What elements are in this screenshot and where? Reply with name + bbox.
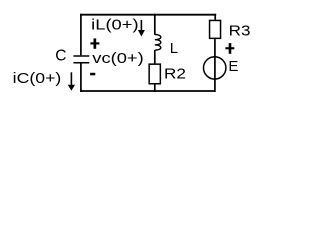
wire left branch lower [80, 64, 82, 93]
wire bottom [80, 90, 215, 92]
svg-text:vc(0+): vc(0+) [92, 50, 143, 67]
resistor R2 [149, 64, 160, 84]
plus sign vc polarity [90, 38, 99, 48]
inductor L coil [155, 35, 161, 51]
svg-text:R3: R3 [229, 23, 251, 40]
wire top [80, 14, 216, 16]
wire right branch through source [214, 39, 216, 92]
svg-text:iC(0+): iC(0+) [13, 70, 62, 87]
arrow iC(0+) current [68, 72, 75, 90]
minus sign vc polarity [90, 73, 95, 76]
wire left branch upper [80, 14, 82, 56]
svg-text:E: E [228, 58, 238, 75]
wire middle branch mid (coil to R2) [154, 50, 156, 64]
arrow iL(0+) current [138, 20, 145, 37]
svg-text:L: L [170, 40, 178, 57]
resistor R3 [210, 20, 221, 38]
svg-text:C: C [55, 48, 66, 65]
wire middle branch lower [154, 85, 156, 93]
svg-text:R2: R2 [164, 66, 186, 83]
wire middle branch upper [154, 14, 156, 35]
plus sign E polarity [225, 43, 234, 54]
svg-text:iL(0+): iL(0+) [91, 17, 138, 34]
capacitor C plates [73, 56, 89, 63]
voltage source E circle [204, 57, 226, 79]
wire right branch upper (top wire to R3) [214, 14, 216, 20]
